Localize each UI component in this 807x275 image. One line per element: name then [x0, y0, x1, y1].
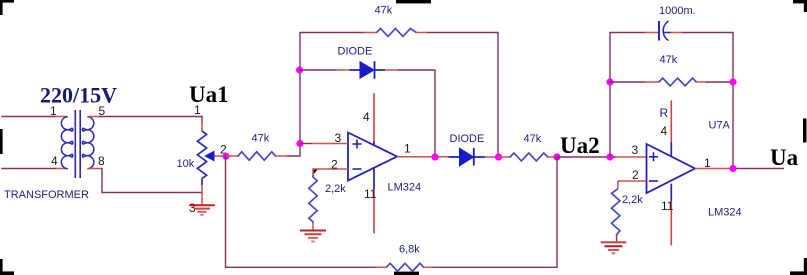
svg-text:3: 3 — [632, 143, 639, 157]
junction dot Ua2 — [553, 153, 560, 160]
wire T1 pin8 down and right to pot ground node — [89, 169, 202, 193]
power pin 4 (U7A) with R label — [670, 101, 672, 143]
svg-text:Ua1: Ua1 — [189, 82, 229, 107]
svg-text:47k: 47k — [252, 133, 270, 145]
svg-text:2: 2 — [632, 168, 639, 182]
border frame top-right corner — [793, 0, 807, 12]
svg-text:3: 3 — [335, 131, 342, 145]
svg-text:2: 2 — [331, 157, 338, 171]
wire T1 pin5 to potentiometer top — [89, 117, 202, 132]
junction dot feedback return — [495, 153, 502, 160]
resistor 47k (input) — [226, 144, 300, 160]
svg-text:DIODE: DIODE — [338, 46, 373, 58]
svg-text:4: 4 — [363, 110, 370, 124]
svg-text:1: 1 — [50, 104, 57, 118]
diode D1 (feedback) — [350, 61, 386, 78]
svg-text:2,2k: 2,2k — [325, 183, 346, 195]
op-amp U1 minus sign — [353, 168, 362, 170]
op-amp U1 LM324 — [348, 133, 397, 181]
junction dot right 47k row — [729, 78, 736, 85]
resistor 47k (to Ua2) — [499, 153, 558, 161]
diode D2 (series) — [449, 148, 486, 166]
potentiometer bottom lead — [201, 178, 203, 185]
svg-text:DIODE: DIODE — [450, 133, 485, 145]
svg-text:1: 1 — [704, 156, 711, 170]
junction dot node A (pin3 net) — [296, 140, 303, 147]
wire cap row y=32.5 — [610, 32, 733, 34]
wire diode feedback row y=70 — [300, 70, 435, 157]
svg-text:U7A: U7A — [709, 120, 731, 132]
border frame left edge bar — [0, 129, 3, 154]
svg-text:1000m.: 1000m. — [659, 5, 696, 17]
power pin 11 (U7A) — [670, 184, 672, 201]
border frame top middle bar — [396, 0, 431, 3]
op-amp U7A plus sign — [649, 152, 658, 161]
junction dot U7A output — [729, 165, 736, 172]
border frame bottom-left corner — [0, 259, 14, 275]
op-amp U7A LM324 — [647, 144, 696, 193]
capacitor C1 1000m. — [659, 21, 671, 41]
ground (pot) — [189, 205, 215, 215]
op-amp U1 plus sign — [353, 140, 362, 149]
svg-text:LM324: LM324 — [708, 207, 742, 219]
svg-text:R: R — [660, 106, 669, 120]
junction dot diode branch — [296, 66, 303, 73]
resistor 47k (U2 feedback) — [659, 78, 697, 86]
wire 47k feedback row y=82 — [610, 81, 733, 83]
svg-text:LM324: LM324 — [388, 182, 422, 194]
ground (2,2k U7A) — [601, 242, 627, 253]
wire node A vertical feedback riser x=300 — [299, 33, 301, 145]
transformer T1 secondary winding — [82, 117, 94, 169]
transformer core — [75, 110, 80, 178]
wire U7A output — [695, 168, 733, 170]
wire pin2 stub into U1 with 2.2k branch — [318, 168, 348, 170]
svg-text:6,8k: 6,8k — [399, 244, 420, 256]
svg-text:10k: 10k — [177, 158, 195, 170]
svg-text:47k: 47k — [524, 133, 542, 145]
svg-text:4: 4 — [51, 154, 58, 168]
transformer T1 primary winding — [61, 117, 73, 169]
potentiometer R 10k body — [197, 131, 206, 178]
svg-text:1: 1 — [404, 141, 411, 155]
wire D2 to 47k — [485, 156, 499, 158]
wire U2 feedback right riser x=733 — [732, 33, 734, 169]
potentiometer wiper arrow — [204, 151, 226, 162]
svg-text:11: 11 — [661, 199, 674, 213]
wire U2 feedback left riser x=610 — [609, 33, 611, 158]
junction dot node 2 / Ua1 wiper — [223, 153, 230, 160]
border frame top-left corner — [0, 0, 14, 15]
resistor 2,2k (U7A) — [612, 189, 620, 236]
svg-text:47k: 47k — [375, 5, 393, 17]
wire pin2 stub into U7A with 2.2k branch — [618, 180, 647, 182]
svg-text:4: 4 — [661, 124, 668, 138]
ground (2,2k U1) — [300, 231, 326, 242]
op-amp U7A minus sign — [649, 180, 658, 182]
border frame right edge bar — [803, 119, 807, 143]
svg-text:TRANSFORMER: TRANSFORMER — [4, 189, 89, 201]
svg-text:Ua2: Ua2 — [560, 133, 600, 158]
junction dot U2 feedback tap — [606, 153, 613, 160]
svg-text:47k: 47k — [660, 54, 678, 66]
wire Ua2 to U2 pin3 — [557, 156, 616, 158]
wire U1 output — [397, 156, 449, 158]
svg-text:11: 11 — [364, 187, 377, 201]
wire pin3 stub into U1 — [300, 143, 312, 145]
border frame bottom-right corner — [790, 258, 807, 275]
wire bottom feedback loop 6,8k — [226, 156, 558, 267]
svg-text:Ua: Ua — [770, 145, 799, 170]
wire top feedback 47k row y=32.5 — [300, 33, 498, 157]
resistor 6,8k — [386, 263, 424, 271]
svg-text:2,2k: 2,2k — [622, 194, 643, 206]
power pin 11 (U1) — [373, 168, 375, 189]
svg-text:8: 8 — [98, 154, 105, 168]
wire T1 pin4 to left edge — [2, 168, 66, 170]
border frame bottom middle bar — [394, 272, 419, 275]
power pin 4 (U1) — [373, 93, 375, 141]
resistor 47k (top feedback) — [377, 29, 417, 37]
junction dot left 47k row — [606, 78, 613, 85]
junction dot U1 output — [431, 153, 438, 160]
wire T1 pin1 to left edge — [2, 116, 66, 118]
resistor 2,2k (U1) — [309, 175, 317, 223]
